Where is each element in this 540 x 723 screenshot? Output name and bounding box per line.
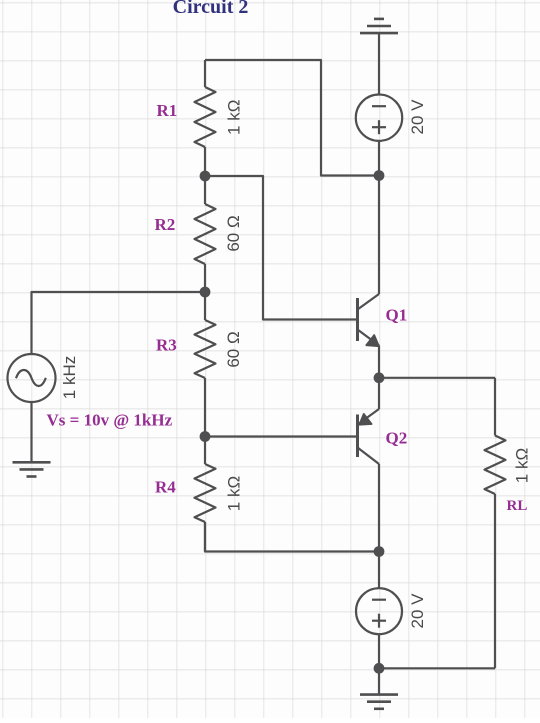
- node V1-Q1 collector junction: [374, 170, 385, 181]
- transistor Q2 (PNP): [358, 409, 380, 464]
- wire collector feed Q1: [378, 176, 380, 295]
- node B (R2-R3 junction): [200, 287, 211, 298]
- dc source V1 (20 V): [356, 95, 402, 141]
- wire V1 to collector node: [378, 141, 380, 176]
- svg-text:1 kHz: 1 kHz: [60, 356, 79, 399]
- svg-text:R1: R1: [157, 101, 178, 120]
- wire RL bottom to node F: [379, 667, 495, 669]
- svg-text:1 kΩ: 1 kΩ: [224, 100, 243, 135]
- wire R4 bottom to node E: [205, 522, 379, 552]
- wire node A to Q1 base: [205, 176, 358, 320]
- transistor Q1 (NPN): [358, 294, 380, 346]
- resistor RL: [485, 378, 506, 669]
- svg-text:20 V: 20 V: [408, 99, 427, 135]
- svg-text:R3: R3: [156, 336, 177, 355]
- dc source V2 (20 V): [356, 588, 402, 634]
- wire node D to RL: [379, 377, 495, 379]
- wire node D to Q2 emitter: [378, 378, 380, 409]
- ground bottom: [360, 695, 398, 709]
- svg-text:1 kΩ: 1 kΩ: [513, 448, 532, 483]
- svg-text:Q2: Q2: [386, 429, 408, 448]
- wire node B to source Vs: [32, 292, 206, 354]
- node D (output node): [374, 372, 385, 383]
- wire R1 top to V1 branch: [205, 60, 379, 176]
- ground top (V1): [360, 19, 398, 33]
- node E (Q2 collector junction): [374, 546, 385, 557]
- svg-text:R4: R4: [155, 478, 176, 497]
- node F (ground node): [374, 663, 385, 674]
- wire node C to Q2 base: [205, 435, 358, 437]
- node A (R1-R2 junction): [200, 171, 211, 182]
- wire Vs to ground: [30, 402, 32, 462]
- wire Q1 emitter to node D: [378, 346, 380, 378]
- resistor R1: [195, 60, 216, 176]
- wire V2 to node F: [378, 634, 380, 668]
- svg-text:60 Ω: 60 Ω: [224, 331, 243, 367]
- svg-text:20 V: 20 V: [408, 593, 427, 629]
- wire node E to V2: [378, 552, 380, 589]
- svg-text:R2: R2: [155, 215, 176, 234]
- svg-text:Q1: Q1: [386, 306, 408, 325]
- ground Vs ground: [13, 462, 51, 476]
- resistor R4: [195, 437, 216, 552]
- svg-text:RL: RL: [507, 498, 528, 514]
- svg-text:60 Ω: 60 Ω: [224, 215, 243, 251]
- svg-text:Vs = 10v @ 1kHz: Vs = 10v @ 1kHz: [47, 411, 173, 430]
- ac source Vs (1 kHz): [8, 354, 56, 402]
- resistor R2: [195, 176, 216, 292]
- wire Q2 collector to node E: [378, 464, 380, 552]
- wire node F to ground: [378, 668, 380, 694]
- resistor R3: [195, 292, 216, 437]
- wire top ground to V1: [378, 33, 380, 94]
- svg-text:1 kΩ: 1 kΩ: [225, 476, 244, 511]
- svg-text:Circuit 2: Circuit 2: [173, 0, 249, 18]
- node C (R3-R4 junction): [200, 431, 211, 442]
